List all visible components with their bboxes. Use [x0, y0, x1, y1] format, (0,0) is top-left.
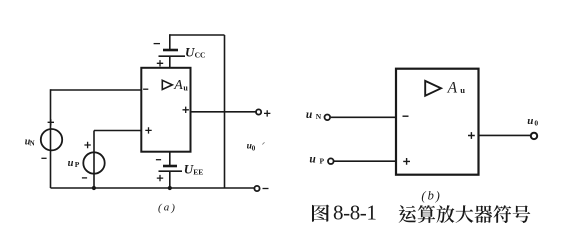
svg-text:u: u — [527, 115, 533, 127]
svg-text:(: ( — [158, 202, 163, 214]
svg-text:A: A — [447, 80, 458, 97]
svg-text:u: u — [309, 154, 316, 166]
svg-text:u: u — [460, 85, 465, 95]
svg-text:b: b — [428, 189, 434, 203]
svg-text:u: u — [306, 109, 313, 121]
svg-text:0: 0 — [534, 118, 538, 127]
svg-text:): ) — [170, 202, 175, 214]
svg-text:P: P — [320, 156, 325, 165]
svg-text:8-8-1: 8-8-1 — [333, 201, 377, 225]
svg-text:EE: EE — [193, 167, 203, 176]
svg-text:N: N — [316, 112, 322, 121]
svg-text:U: U — [185, 45, 195, 60]
svg-text:A: A — [173, 78, 183, 93]
svg-text:(: ( — [421, 189, 426, 203]
svg-text:0: 0 — [252, 145, 256, 153]
svg-text:u: u — [68, 158, 74, 169]
svg-text:a: a — [164, 202, 170, 214]
svg-text:N: N — [30, 139, 35, 147]
svg-text:): ) — [435, 189, 440, 203]
svg-text:CC: CC — [195, 50, 206, 59]
svg-text:P: P — [75, 160, 80, 169]
svg-text:u: u — [183, 84, 188, 93]
